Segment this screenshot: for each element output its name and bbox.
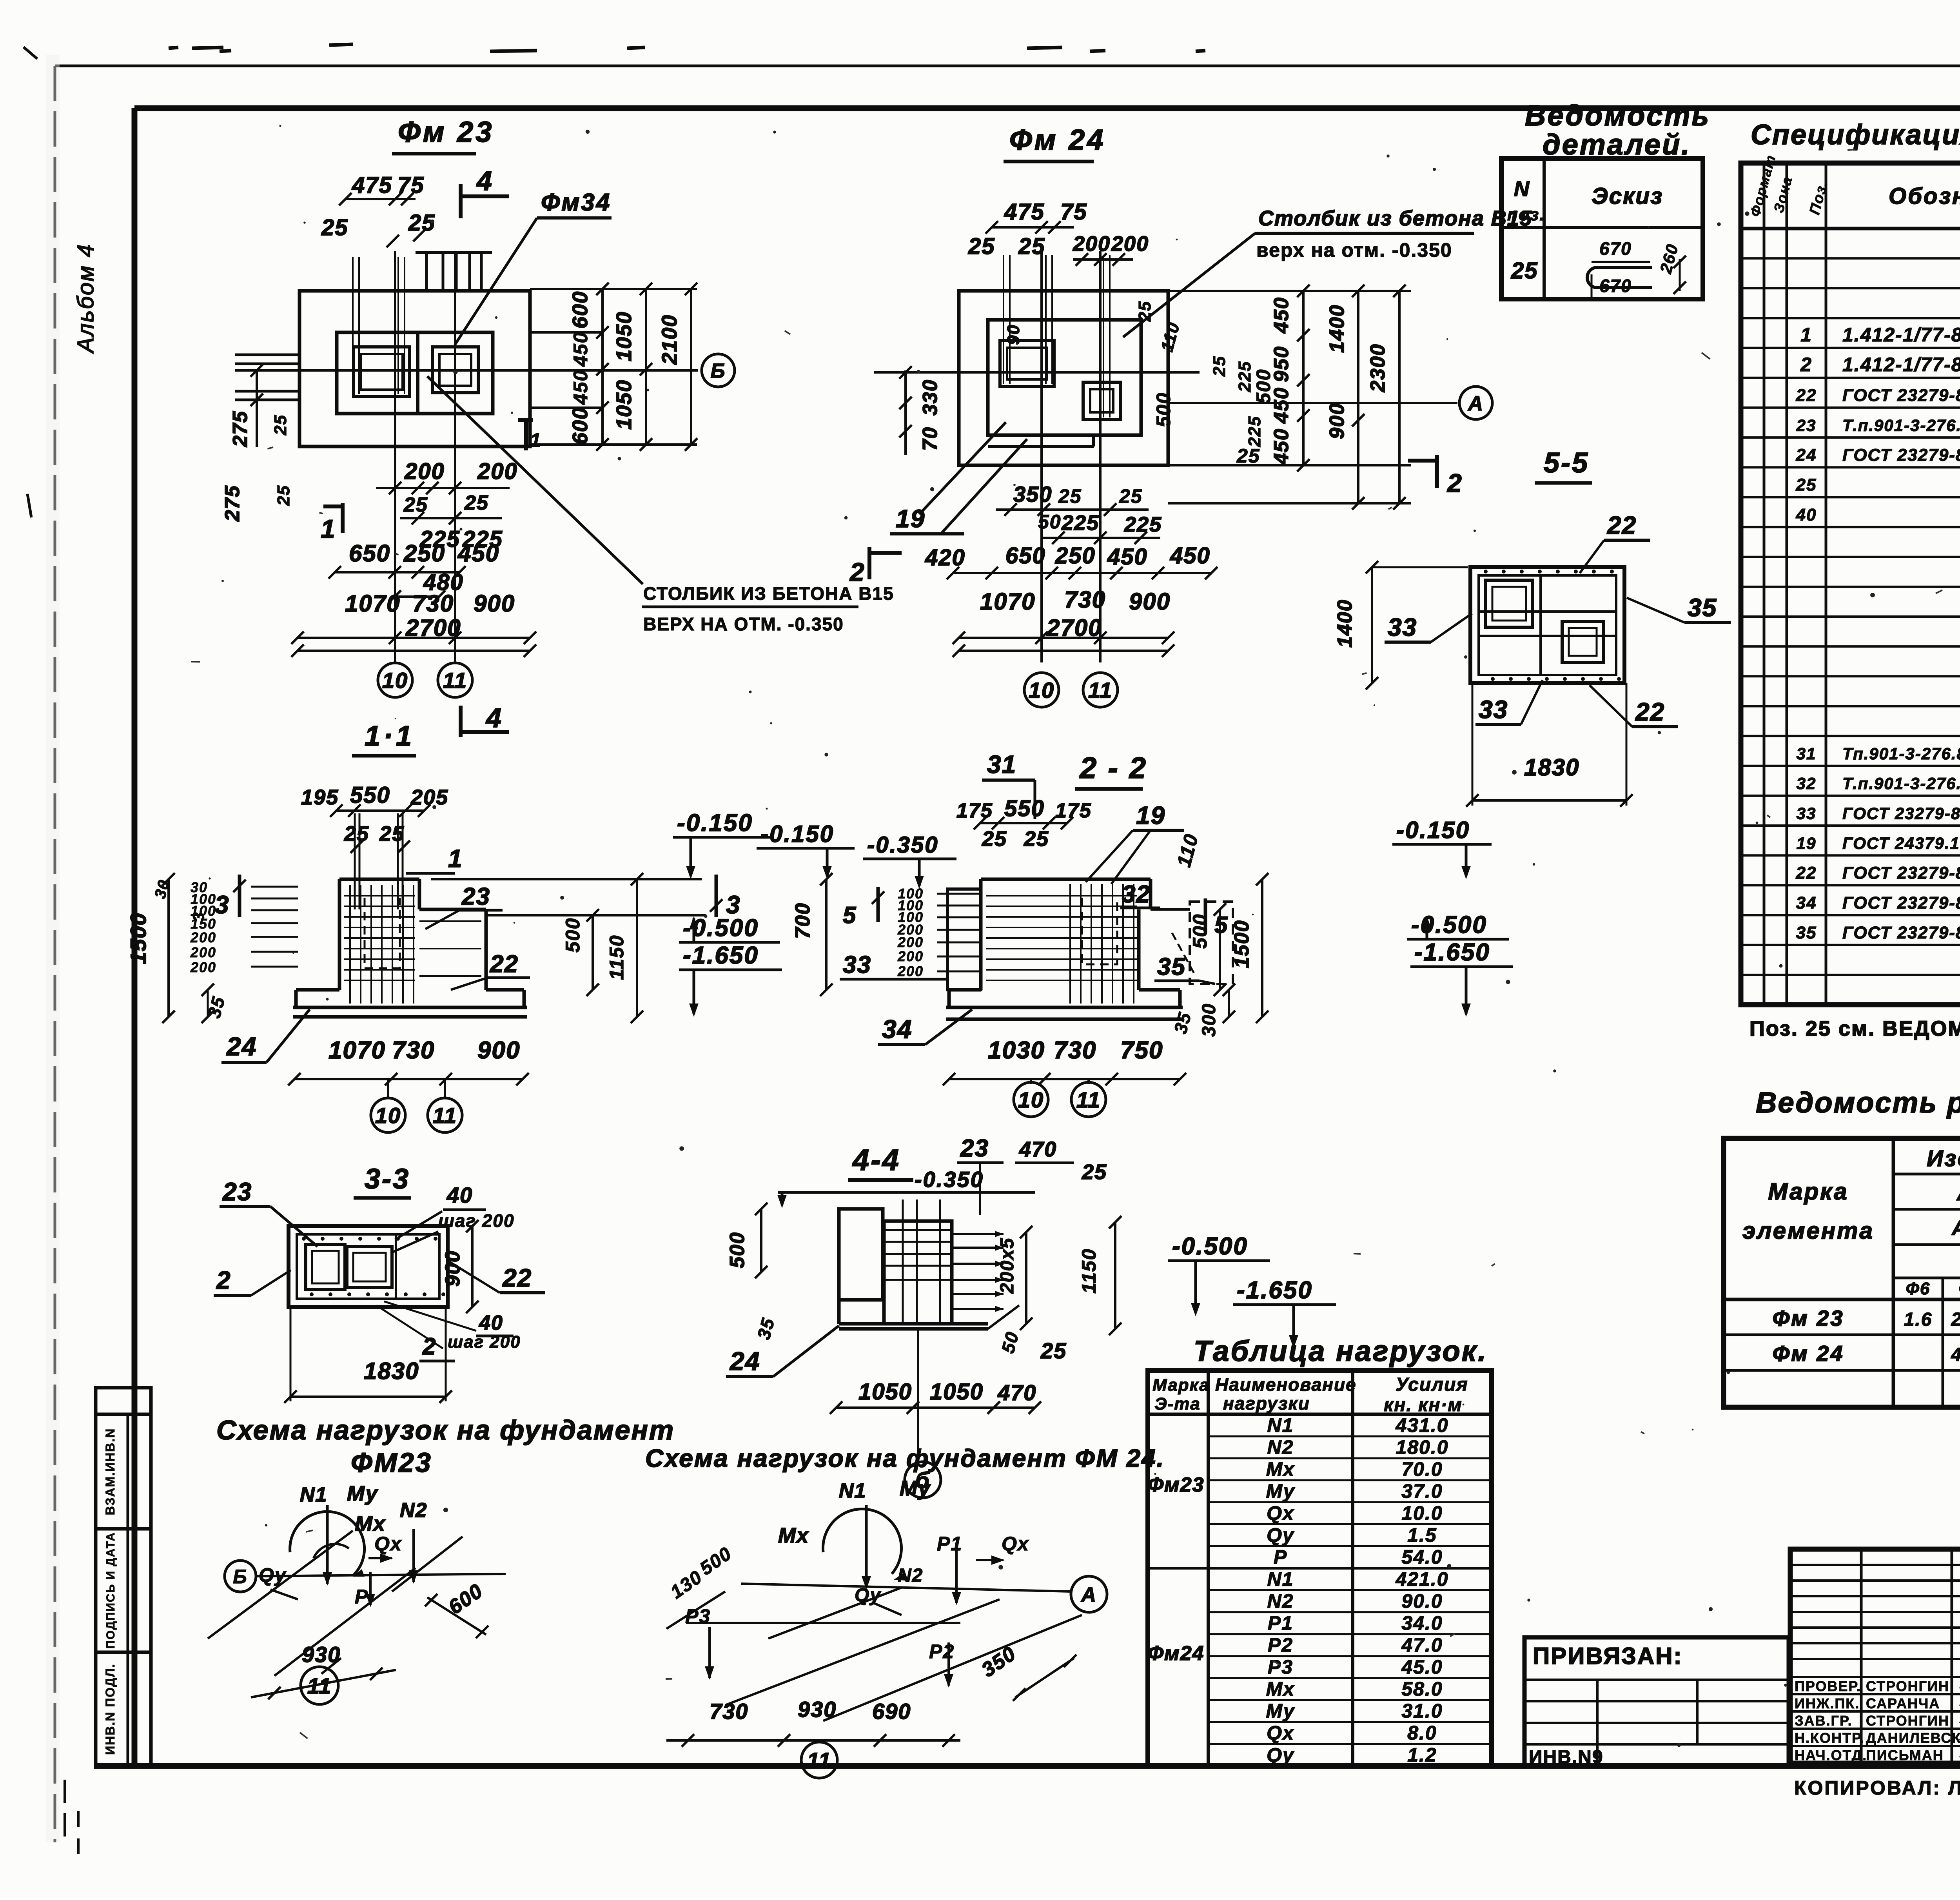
svg-text:25: 25 (982, 827, 1007, 851)
svg-text:-0.500: -0.500 (1172, 1233, 1248, 1260)
svg-text:19: 19 (896, 504, 925, 533)
svg-text:35: 35 (1796, 923, 1817, 942)
svg-text:25: 25 (271, 414, 290, 436)
svg-text:шаг 200: шаг 200 (448, 1332, 521, 1352)
svg-text:450: 450 (570, 370, 592, 405)
svg-text:Му: Му (1266, 1700, 1295, 1722)
svg-text:Qу: Qу (855, 1585, 881, 1606)
svg-text:-0.350: -0.350 (867, 832, 938, 858)
svg-text:1070: 1070 (345, 590, 400, 617)
svg-text:33: 33 (1388, 613, 1417, 641)
svg-text:750: 750 (1120, 1037, 1163, 1064)
svg-text:200: 200 (190, 929, 216, 945)
svg-text:3: 3 (190, 912, 207, 921)
svg-text:Ведомость: Ведомость (1525, 99, 1710, 132)
svg-text:8.0: 8.0 (1407, 1722, 1437, 1744)
svg-text:22: 22 (1796, 864, 1817, 883)
svg-text:Му: Му (1266, 1480, 1295, 1502)
svg-text:22: 22 (1796, 386, 1817, 405)
svg-text:22: 22 (1607, 511, 1637, 539)
svg-text:475: 475 (352, 172, 392, 198)
svg-text:1830: 1830 (364, 1358, 419, 1384)
svg-text:Р2: Р2 (1268, 1634, 1293, 1656)
svg-text:верх на отм. -0.350: верх на отм. -0.350 (1256, 239, 1452, 261)
svg-text:А: А (1080, 1584, 1097, 1606)
svg-text:900: 900 (477, 1037, 520, 1064)
svg-text:225: 225 (1061, 511, 1099, 535)
svg-text:25: 25 (1119, 485, 1143, 507)
svg-text:3: 3 (215, 891, 230, 919)
svg-text:Qх: Qх (1267, 1722, 1294, 1744)
svg-text:550: 550 (1004, 796, 1045, 821)
svg-text:2700: 2700 (1046, 615, 1102, 641)
svg-text:А-І: А-І (1951, 1217, 1960, 1239)
svg-text:4: 4 (485, 702, 502, 733)
svg-text:19: 19 (1797, 834, 1817, 852)
svg-text:470: 470 (997, 1380, 1036, 1405)
svg-text:Фм 24: Фм 24 (1773, 1341, 1844, 1366)
svg-text:900: 900 (474, 590, 515, 617)
svg-text:1070: 1070 (328, 1037, 386, 1064)
svg-text:58.0: 58.0 (1401, 1678, 1443, 1700)
svg-text:1: 1 (1800, 324, 1812, 346)
svg-text:200: 200 (897, 948, 924, 964)
svg-text:N2: N2 (400, 1499, 427, 1522)
svg-text:Фм 23: Фм 23 (1773, 1306, 1844, 1330)
svg-text:Изделия арматурные: Изделия арматурные (1927, 1146, 1960, 1171)
svg-text:33: 33 (843, 951, 871, 978)
svg-text:ВЗАМ.ИНВ.N: ВЗАМ.ИНВ.N (103, 1428, 117, 1515)
svg-text:25: 25 (379, 822, 405, 846)
svg-text:31.0: 31.0 (1401, 1700, 1443, 1722)
svg-text:Марка: Марка (1768, 1178, 1848, 1205)
svg-text:1050: 1050 (612, 379, 636, 430)
svg-text:500: 500 (1252, 369, 1274, 404)
svg-text:Арматура класса: Арматура класса (1956, 1180, 1960, 1205)
svg-text:Поз. 25 см. ВЕДОМОСТЬ ДЕТАЛЕ: Поз. 25 см. ВЕДОМОСТЬ ДЕТАЛЕЙ НА ДАННОМ … (1749, 1016, 1960, 1040)
svg-text:ГОСТ 23279-85: ГОСТ 23279-85 (1842, 386, 1960, 405)
svg-text:421.0: 421.0 (1395, 1568, 1448, 1590)
svg-text:Э-та: Э-та (1154, 1394, 1201, 1414)
svg-text:деталей.: деталей. (1543, 128, 1691, 161)
svg-text:Мх: Мх (1266, 1678, 1295, 1700)
svg-text:730: 730 (412, 590, 454, 617)
svg-text:2: 2 (1800, 354, 1812, 376)
svg-text:N2: N2 (1267, 1436, 1294, 1458)
svg-text:Б: Б (233, 1566, 247, 1588)
svg-text:элемента: элемента (1742, 1218, 1874, 1244)
svg-text:35: 35 (1157, 953, 1186, 980)
svg-text:34: 34 (882, 1014, 912, 1043)
svg-text:24: 24 (1796, 445, 1817, 465)
svg-text:175: 175 (956, 799, 993, 822)
svg-text:Спецификация монолитных фундам: Спецификация монолитных фундаментов. (1751, 119, 1960, 151)
svg-text:-0.150: -0.150 (677, 809, 753, 837)
svg-text:200: 200 (477, 459, 518, 484)
svg-text:500: 500 (562, 918, 584, 953)
svg-text:25: 25 (1210, 356, 1229, 377)
svg-text:200: 200 (404, 459, 445, 484)
svg-text:25: 25 (1082, 1160, 1107, 1184)
svg-text:2700: 2700 (405, 615, 461, 641)
svg-text:10: 10 (382, 668, 408, 693)
svg-text:200: 200 (1073, 232, 1111, 256)
svg-text:Усилия: Усилия (1396, 1374, 1468, 1395)
svg-text:37.0: 37.0 (1401, 1480, 1443, 1502)
svg-text:Столбик из бетона В15: Столбик из бетона В15 (1258, 207, 1532, 230)
svg-text:Н.КОНТР.: Н.КОНТР. (1795, 1730, 1865, 1746)
svg-text:ИНЖ.ПК.: ИНЖ.ПК. (1795, 1695, 1860, 1711)
svg-text:670: 670 (1599, 238, 1632, 259)
svg-text:Мх: Мх (1266, 1458, 1295, 1480)
svg-text:1500: 1500 (126, 912, 151, 964)
svg-text:Qу: Qу (1267, 1744, 1294, 1766)
svg-text:2: 2 (216, 1266, 231, 1294)
svg-text:ВЕРХ НА ОТМ. -0.350: ВЕРХ НА ОТМ. -0.350 (643, 614, 844, 634)
svg-text:45.0: 45.0 (1401, 1656, 1443, 1678)
svg-text:275: 275 (221, 485, 244, 522)
svg-text:43.0: 43.0 (1951, 1345, 1960, 1365)
svg-text:200: 200 (190, 959, 216, 975)
svg-text:Р3: Р3 (1268, 1656, 1293, 1678)
svg-text:Ф6: Ф6 (1906, 1279, 1931, 1298)
svg-text:930: 930 (798, 1697, 837, 1722)
svg-text:25: 25 (274, 485, 293, 506)
svg-text:90: 90 (1004, 324, 1023, 345)
svg-text:5-5: 5-5 (1544, 447, 1589, 479)
svg-text:550: 550 (350, 782, 390, 808)
svg-text:10: 10 (375, 1103, 401, 1128)
svg-text:Схема нагрузок на фундамент: Схема нагрузок на фундамент (216, 1415, 675, 1445)
svg-text:225: 225 (1235, 361, 1254, 392)
svg-text:1: 1 (448, 844, 463, 873)
svg-text:23: 23 (1796, 416, 1817, 434)
svg-text:Мх: Мх (355, 1512, 386, 1535)
svg-text:730: 730 (1064, 586, 1106, 613)
svg-text:11: 11 (1088, 678, 1112, 702)
svg-text:90.0: 90.0 (1401, 1590, 1443, 1612)
svg-text:200: 200 (897, 963, 924, 979)
svg-text:Фм 24: Фм 24 (1009, 123, 1105, 156)
svg-text:1050: 1050 (930, 1379, 984, 1405)
svg-text:32: 32 (1797, 774, 1817, 793)
svg-text:200: 200 (190, 944, 216, 960)
svg-text:-1.650: -1.650 (1237, 1277, 1313, 1304)
svg-text:33: 33 (1479, 695, 1508, 724)
svg-text:34.0: 34.0 (1401, 1612, 1443, 1634)
svg-text:Ф8: Ф8 (1959, 1279, 1960, 1298)
svg-text:Qх: Qх (374, 1533, 402, 1555)
svg-text:кн. кн·м: кн. кн·м (1384, 1395, 1463, 1415)
svg-text:Qх: Qх (1267, 1502, 1294, 1524)
svg-text:470: 470 (1019, 1138, 1057, 1161)
svg-text:1·1: 1·1 (365, 720, 415, 752)
svg-text:Б: Б (711, 360, 726, 383)
svg-text:29.0: 29.0 (1951, 1309, 1960, 1330)
svg-text:50: 50 (1038, 511, 1062, 533)
svg-text:330: 330 (919, 379, 942, 416)
svg-text:180.0: 180.0 (1396, 1436, 1448, 1458)
svg-text:Р2: Р2 (929, 1640, 955, 1662)
svg-text:-0.500: -0.500 (1411, 911, 1487, 938)
svg-text:Р: Р (355, 1586, 368, 1608)
svg-text:ПРИВЯЗАН:: ПРИВЯЗАН: (1533, 1643, 1682, 1669)
svg-text:75: 75 (1060, 199, 1087, 225)
svg-text:25: 25 (1018, 234, 1045, 259)
svg-text:450: 450 (1107, 544, 1148, 570)
svg-text:1.412-1/77-8.3-100: 1.412-1/77-8.3-100 (1842, 354, 1960, 376)
svg-text:Фм34: Фм34 (541, 189, 611, 216)
svg-text:4: 4 (476, 165, 493, 196)
svg-text:СТРОНГИН: СТРОНГИН (1866, 1678, 1949, 1694)
svg-text:-0.150: -0.150 (1396, 817, 1470, 843)
svg-text:2: 2 (1446, 468, 1463, 497)
svg-text:25: 25 (344, 822, 369, 846)
svg-text:1400: 1400 (1326, 304, 1348, 353)
svg-text:НАЧ.ОТД.: НАЧ.ОТД. (1795, 1747, 1867, 1763)
svg-text:250: 250 (1055, 543, 1096, 568)
svg-text:ИНВ.N9: ИНВ.N9 (1529, 1747, 1604, 1768)
svg-text:24: 24 (729, 1347, 760, 1376)
svg-text:11: 11 (307, 1673, 332, 1698)
svg-text:11: 11 (1076, 1087, 1101, 1112)
svg-text:5: 5 (1214, 912, 1228, 938)
svg-text:Эскиз: Эскиз (1592, 183, 1663, 209)
svg-text:25: 25 (1511, 258, 1538, 283)
svg-text:1.412-1/77-8.3-020: 1.412-1/77-8.3-020 (1842, 324, 1960, 346)
svg-text:1030: 1030 (988, 1037, 1045, 1064)
svg-text:450: 450 (1170, 543, 1210, 568)
svg-text:25: 25 (1024, 827, 1049, 851)
svg-text:Фм23: Фм23 (1148, 1474, 1205, 1496)
svg-text:450: 450 (570, 332, 592, 367)
svg-text:Му: Му (900, 1477, 931, 1500)
svg-text:450: 450 (457, 540, 499, 566)
svg-text:31: 31 (987, 750, 1016, 779)
svg-text:23: 23 (222, 1178, 252, 1206)
svg-text:500: 500 (726, 1232, 749, 1268)
svg-text:25: 25 (1796, 475, 1817, 495)
svg-text:10.0: 10.0 (1401, 1502, 1443, 1524)
svg-text:Альбом 4: Альбом 4 (73, 243, 98, 354)
svg-text:-1.650: -1.650 (683, 942, 759, 969)
svg-text:поз.: поз. (1507, 205, 1545, 224)
svg-text:690: 690 (872, 1699, 911, 1724)
svg-text:N2: N2 (1267, 1590, 1294, 1612)
svg-text:СТРОНГИН: СТРОНГИН (1866, 1713, 1949, 1729)
svg-text:23: 23 (960, 1135, 989, 1162)
svg-text:225: 225 (1245, 416, 1264, 447)
svg-text:ПИСЬМАН: ПИСЬМАН (1866, 1747, 1944, 1763)
svg-text:22: 22 (490, 951, 519, 978)
svg-text:650: 650 (1005, 543, 1046, 568)
svg-text:730: 730 (710, 1699, 748, 1724)
svg-text:600: 600 (568, 407, 592, 445)
svg-text:-0.350: -0.350 (915, 1167, 984, 1192)
svg-text:25: 25 (1040, 1338, 1067, 1363)
svg-text:1070: 1070 (980, 588, 1035, 615)
svg-text:54.0: 54.0 (1401, 1546, 1443, 1568)
svg-text:730: 730 (1054, 1037, 1096, 1064)
svg-text:11: 11 (443, 668, 467, 693)
svg-text:ДАНИЛЕВСКАЯ: ДАНИЛЕВСКАЯ (1866, 1730, 1960, 1746)
svg-text:1: 1 (321, 514, 336, 543)
svg-text:ГОСТ 23279-85: ГОСТ 23279-85 (1842, 923, 1960, 942)
svg-text:2 - 2: 2 - 2 (1079, 751, 1147, 785)
svg-text:А: А (1467, 392, 1484, 415)
svg-text:10: 10 (1029, 678, 1054, 702)
svg-text:25: 25 (1236, 445, 1260, 467)
svg-text:275: 275 (229, 410, 252, 447)
svg-text:Р: Р (1274, 1546, 1287, 1568)
svg-text:N1: N1 (300, 1483, 327, 1506)
svg-text:200х5: 200х5 (997, 1238, 1018, 1294)
svg-text:N1: N1 (839, 1479, 866, 1502)
svg-text:670: 670 (1599, 276, 1632, 296)
svg-text:1050: 1050 (612, 311, 636, 361)
svg-text:1500: 1500 (1230, 920, 1253, 968)
svg-text:475: 475 (1004, 199, 1045, 225)
svg-text:ГОСТ 23279-85: ГОСТ 23279-85 (1842, 445, 1960, 465)
svg-text:2: 2 (849, 557, 865, 586)
svg-text:34: 34 (1796, 893, 1817, 913)
svg-text:Фм 23: Фм 23 (398, 116, 494, 148)
svg-text:1.2: 1.2 (1407, 1744, 1437, 1766)
svg-text:Qу: Qу (259, 1564, 287, 1586)
svg-text:32: 32 (1122, 881, 1151, 908)
svg-text:19: 19 (1136, 801, 1165, 829)
svg-text:700: 700 (791, 902, 814, 939)
svg-text:47.0: 47.0 (1401, 1634, 1443, 1656)
svg-text:Р1: Р1 (937, 1533, 962, 1555)
svg-text:650: 650 (349, 540, 390, 566)
svg-text:Наименование: Наименование (1215, 1374, 1357, 1395)
svg-text:2300: 2300 (1367, 343, 1389, 392)
svg-text:1050: 1050 (858, 1379, 912, 1405)
svg-text:40: 40 (1796, 505, 1817, 524)
svg-text:40: 40 (446, 1183, 473, 1207)
svg-text:N2: N2 (898, 1565, 923, 1586)
svg-text:25: 25 (321, 215, 348, 240)
svg-text:22: 22 (1635, 698, 1665, 726)
svg-text:ФМ23: ФМ23 (351, 1447, 432, 1478)
svg-text:Т.п.901-3-276.89 КЖ.И89.0.0: Т.п.901-3-276.89 КЖ.И89.0.0 (1842, 416, 1960, 434)
svg-text:N1: N1 (1267, 1414, 1294, 1436)
svg-text:Qх: Qх (1002, 1533, 1029, 1555)
svg-text:35: 35 (1688, 593, 1717, 622)
svg-text:ГОСТ 23279-85: ГОСТ 23279-85 (1842, 893, 1960, 913)
svg-text:200: 200 (1111, 232, 1149, 256)
svg-text:1.6: 1.6 (1904, 1309, 1933, 1330)
svg-text:Марка: Марка (1152, 1376, 1210, 1395)
svg-text:25: 25 (968, 234, 995, 259)
svg-text:25: 25 (464, 492, 489, 514)
svg-text:Мх: Мх (778, 1524, 809, 1547)
svg-text:ГОСТ 23279-85: ГОСТ 23279-85 (1842, 804, 1960, 822)
svg-text:450: 450 (1270, 297, 1293, 334)
svg-text:31: 31 (1797, 744, 1817, 763)
svg-text:500: 500 (1189, 914, 1211, 949)
svg-text:175: 175 (1055, 799, 1092, 822)
svg-text:22: 22 (502, 1264, 532, 1292)
svg-text:195: 195 (301, 786, 339, 809)
svg-text:225: 225 (1124, 513, 1162, 536)
svg-text:900: 900 (1129, 588, 1171, 615)
svg-text:420: 420 (925, 545, 965, 570)
svg-text:1: 1 (530, 429, 542, 451)
svg-text:ЗАВ.ГР.: ЗАВ.ГР. (1795, 1713, 1853, 1729)
svg-text:4-4: 4-4 (852, 1143, 900, 1177)
svg-text:Фм24: Фм24 (1148, 1642, 1205, 1665)
svg-text:Р1: Р1 (1268, 1612, 1293, 1634)
svg-text:нагрузки: нагрузки (1223, 1393, 1310, 1414)
svg-text:Т.п.901-3-276.89 КЖИ92.0.0: Т.п.901-3-276.89 КЖИ92.0.0 (1842, 774, 1960, 793)
svg-text:11: 11 (807, 1748, 831, 1773)
svg-text:Тп.901-3-276.89 КЖИ93.0.0: Тп.901-3-276.89 КЖИ93.0.0 (1842, 744, 1960, 763)
svg-text:25: 25 (1135, 301, 1154, 322)
svg-text:ПОДПИСЬ И ДАТА: ПОДПИСЬ И ДАТА (104, 1532, 117, 1649)
svg-text:24: 24 (226, 1032, 257, 1061)
svg-text:33: 33 (1797, 804, 1817, 822)
svg-text:300: 300 (1199, 1003, 1220, 1037)
svg-text:250: 250 (403, 540, 445, 566)
svg-text:40: 40 (479, 1312, 503, 1334)
svg-text:Обозначение: Обозначение (1889, 183, 1960, 209)
svg-text:Схема нагрузок на фундамент Ф: Схема нагрузок на фундамент ФМ 24. (645, 1444, 1165, 1472)
svg-text:N1: N1 (1267, 1568, 1294, 1590)
svg-text:25: 25 (1058, 485, 1082, 507)
svg-text:70: 70 (919, 426, 942, 451)
svg-text:САРАНЧА: САРАНЧА (1866, 1695, 1940, 1711)
svg-text:1830: 1830 (1524, 754, 1579, 780)
svg-text:КОПИРОВАЛ: ЛОГИНОВА: КОПИРОВАЛ: ЛОГИНОВА (1794, 1777, 1960, 1799)
svg-text:1400: 1400 (1334, 599, 1356, 648)
svg-text:ИНВ.N ПОДЛ.: ИНВ.N ПОДЛ. (103, 1663, 117, 1755)
svg-text:730: 730 (392, 1037, 435, 1064)
svg-text:70.0: 70.0 (1401, 1458, 1443, 1480)
svg-text:500: 500 (1152, 392, 1174, 427)
svg-text:10: 10 (1018, 1087, 1044, 1112)
svg-text:Ведомость расхода стали на оди: Ведомость расхода стали на один элемент,… (1756, 1086, 1960, 1119)
svg-text:900: 900 (1326, 403, 1348, 439)
svg-text:11: 11 (433, 1103, 457, 1128)
svg-text:23: 23 (461, 883, 490, 910)
svg-text:431.0: 431.0 (1395, 1414, 1448, 1436)
svg-text:ГОСТ 24379.1-80: ГОСТ 24379.1-80 (1842, 834, 1960, 852)
svg-text:350: 350 (1013, 482, 1052, 506)
svg-text:Qу: Qу (1267, 1524, 1294, 1546)
svg-text:Му: Му (347, 1482, 379, 1505)
svg-text:2100: 2100 (658, 314, 681, 365)
svg-text:1150: 1150 (1078, 1248, 1100, 1294)
svg-text:-1.650: -1.650 (1414, 939, 1490, 966)
svg-text:1.5: 1.5 (1407, 1524, 1437, 1546)
svg-text:ПРОВЕР.: ПРОВЕР. (1795, 1678, 1861, 1694)
svg-text:ГОСТ 23279-85: ГОСТ 23279-85 (1842, 864, 1960, 883)
svg-text:1150: 1150 (606, 935, 628, 980)
svg-text:3-3: 3-3 (365, 1163, 410, 1195)
svg-text:-0.150: -0.150 (760, 821, 834, 847)
svg-text:N: N (1514, 177, 1530, 201)
svg-text:200: 200 (897, 934, 924, 950)
svg-text:Таблица нагрузок.: Таблица нагрузок. (1194, 1335, 1488, 1367)
svg-text:600: 600 (568, 291, 592, 328)
svg-text:450: 450 (1270, 428, 1293, 465)
svg-text:5: 5 (843, 902, 857, 928)
